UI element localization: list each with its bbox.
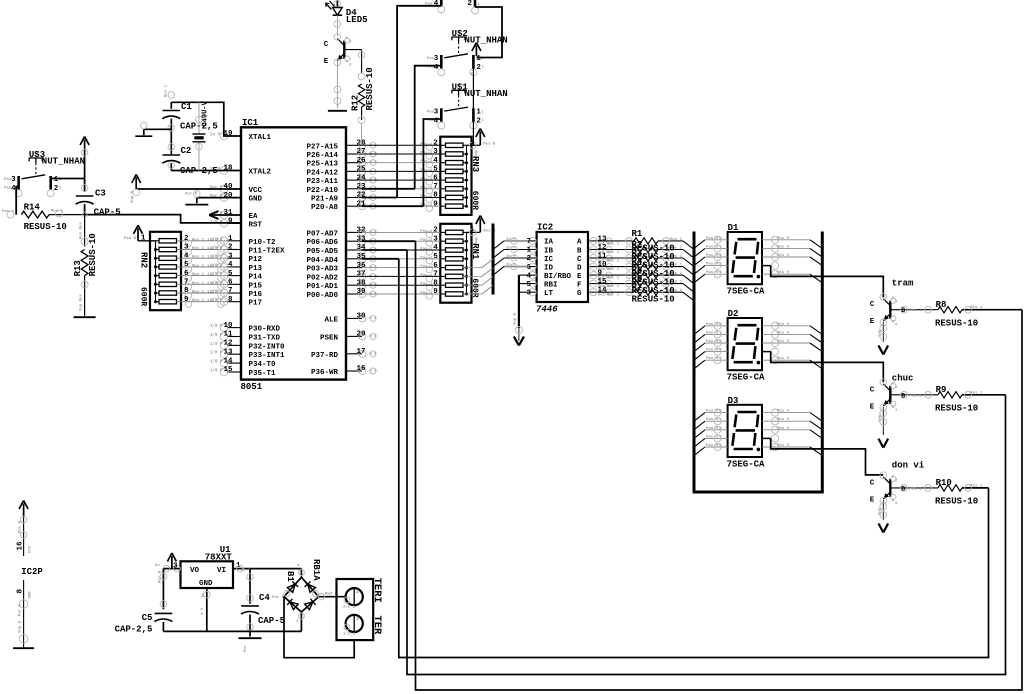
svg-text:Out 1: Out 1	[607, 260, 620, 264]
svg-text:Out 1: Out 1	[607, 294, 620, 298]
svg-text:Res 1: Res 1	[970, 484, 983, 488]
svg-text:5: 5	[526, 281, 531, 289]
svg-text:1: 1	[141, 235, 146, 243]
svg-text:G: G	[577, 290, 582, 298]
svg-text:3: 3	[434, 108, 439, 116]
svg-text:Out 1: Out 1	[607, 251, 620, 255]
svg-text:1/2 P: 1/2 P	[207, 237, 220, 242]
svg-text:RESUS-10: RESUS-10	[88, 233, 98, 276]
svg-text:E: E	[870, 496, 875, 504]
svg-text:,0 0: ,0 0	[367, 231, 377, 235]
svg-text:Res 0: Res 0	[777, 340, 790, 344]
svg-text:B: B	[577, 247, 582, 255]
svg-text:3: 3	[228, 252, 233, 260]
svg-text:RESUS-10: RESUS-10	[935, 404, 978, 414]
svg-text:0: 0	[349, 41, 351, 45]
svg-text:IC1: IC1	[242, 118, 259, 128]
svg-text:2: 2	[433, 140, 438, 148]
svg-text:Pas 0: Pas 0	[706, 418, 719, 422]
svg-text:P01-AD1: P01-AD1	[306, 283, 338, 291]
svg-text:5: 5	[433, 166, 438, 174]
svg-text:8: 8	[433, 279, 438, 287]
svg-text:31: 31	[223, 209, 233, 217]
svg-text:D: D	[577, 264, 582, 272]
svg-text:600R: 600R	[470, 191, 479, 210]
svg-text:C1: C1	[181, 102, 192, 112]
svg-text:30: 30	[356, 313, 366, 321]
svg-text:29: 29	[356, 331, 366, 339]
svg-text:Pas: Pas	[427, 57, 435, 61]
svg-text:11: 11	[223, 331, 233, 339]
svg-text:34: 34	[356, 244, 366, 252]
svg-text:78XXT: 78XXT	[205, 553, 233, 563]
svg-text:tram: tram	[892, 278, 914, 288]
svg-text:1/0 P: 1/0 P	[210, 360, 223, 365]
svg-text:Pas 0: Pas 0	[706, 357, 719, 361]
svg-text:Pas: Pas	[4, 178, 12, 182]
svg-text:CAP-2,5: CAP-2,5	[115, 625, 153, 635]
svg-text:8: 8	[433, 192, 438, 200]
svg-text:Res 1: Res 1	[51, 210, 64, 214]
svg-text:1/2 P: 1/2 P	[207, 281, 220, 286]
svg-text:Res 1: Res 1	[192, 264, 205, 268]
svg-text:2: 2	[201, 593, 204, 599]
svg-text:Res 1: Res 1	[192, 238, 205, 242]
svg-text:RBI: RBI	[544, 281, 558, 289]
svg-text:7446: 7446	[536, 305, 558, 315]
svg-text:GND: GND	[29, 591, 33, 599]
svg-text:Res 1: Res 1	[192, 282, 205, 286]
svg-text:Sup B Pwr B: Sup B Pwr B	[18, 604, 23, 633]
svg-text:1/2 1: 1/2 1	[343, 632, 356, 637]
svg-text:Res 0: Res 0	[777, 427, 790, 431]
svg-text:3: 3	[184, 244, 189, 252]
svg-text:1/0 P: 1/0 P	[210, 324, 223, 329]
svg-text:NUT_NHAN: NUT_NHAN	[465, 89, 508, 99]
svg-text:P16: P16	[249, 291, 263, 299]
svg-text:9: 9	[433, 288, 438, 296]
svg-text:P12: P12	[249, 256, 263, 264]
svg-text:Res B: Res B	[483, 142, 496, 146]
svg-text:P23-A11: P23-A11	[306, 178, 338, 186]
svg-text:3: 3	[433, 148, 438, 156]
svg-text:Pas 0: Pas 0	[706, 263, 719, 267]
svg-text:1/0 P: 1/0 P	[210, 351, 223, 356]
svg-text:C5: C5	[142, 613, 153, 623]
svg-text:Out 1: Out 1	[607, 242, 620, 246]
svg-text:26: 26	[356, 157, 366, 165]
svg-text:27: 27	[356, 148, 365, 156]
svg-text:R13: R13	[73, 260, 83, 276]
svg-text:6: 6	[526, 264, 531, 272]
svg-text:Pas 1: Pas 1	[909, 309, 922, 313]
svg-text:1/2 P: 1/2 P	[207, 263, 220, 268]
svg-text:Res 1: Res 1	[192, 291, 205, 295]
svg-text:C: C	[577, 256, 582, 264]
svg-text:P07-AD7: P07-AD7	[306, 230, 338, 238]
svg-text:P33-INT1: P33-INT1	[249, 352, 286, 360]
svg-text:6: 6	[228, 279, 233, 287]
svg-text:2/2 1: 2/2 1	[343, 605, 356, 610]
svg-text:D2: D2	[728, 309, 739, 319]
svg-text:Res 1: Res 1	[670, 238, 683, 242]
svg-text:R12: R12	[351, 95, 361, 111]
svg-text:Res 0: Res 0	[777, 331, 790, 335]
svg-text:Sup: Sup	[879, 507, 883, 515]
svg-text:1/2 P: 1/2 P	[207, 290, 220, 295]
svg-text:36: 36	[356, 262, 366, 270]
svg-text:Pas 0: Pas 0	[706, 427, 719, 431]
svg-text:8: 8	[228, 296, 233, 304]
svg-text:Pas 0: Pas 0	[706, 331, 719, 335]
svg-text:F: F	[577, 281, 582, 289]
svg-text:Res 1: Res 1	[970, 391, 983, 395]
svg-text:Pwr: Pwr	[243, 644, 248, 652]
svg-text:P05-AD5: P05-AD5	[306, 248, 338, 256]
svg-text:RESUS-10: RESUS-10	[632, 295, 675, 305]
svg-text:P31-TXD: P31-TXD	[249, 335, 281, 343]
svg-text:P35-T1: P35-T1	[249, 370, 277, 378]
svg-text:PSEN: PSEN	[320, 334, 338, 342]
svg-text:33: 33	[356, 235, 366, 243]
svg-text:6: 6	[433, 174, 438, 182]
svg-text:,0 0: ,0 0	[367, 352, 377, 356]
svg-text:R1: R1	[632, 229, 643, 239]
svg-text:Res 1: Res 1	[192, 256, 205, 260]
svg-text:Out 1: Out 1	[607, 268, 620, 272]
svg-text:16: 16	[356, 365, 366, 373]
svg-text:24: 24	[356, 174, 366, 182]
svg-text:25: 25	[356, 166, 366, 174]
svg-text:8: 8	[17, 589, 25, 594]
svg-text:1: 1	[228, 235, 233, 243]
svg-text:Ou: Ou	[155, 564, 160, 568]
svg-text:1: 1	[526, 247, 531, 255]
svg-text:C: C	[870, 301, 875, 309]
svg-text:P24-A12: P24-A12	[306, 169, 338, 177]
svg-text:Res 0: Res 0	[777, 444, 790, 448]
svg-text:4: 4	[184, 252, 189, 260]
svg-text:600R: 600R	[470, 278, 479, 297]
svg-text:7: 7	[184, 279, 189, 287]
svg-text:P17: P17	[249, 300, 263, 308]
svg-text:Pas 0: Pas 0	[706, 410, 719, 414]
svg-text:RN1: RN1	[470, 243, 480, 260]
svg-text:C2: C2	[181, 146, 192, 156]
svg-text:7: 7	[228, 287, 233, 295]
svg-text:C: C	[324, 41, 329, 49]
svg-text:Pas 0: Pas 0	[706, 237, 719, 241]
svg-text:15: 15	[223, 366, 233, 374]
svg-text:ALE: ALE	[324, 316, 338, 324]
svg-text:IC: IC	[544, 256, 554, 264]
svg-text:1: 1	[470, 139, 475, 147]
svg-text:P13: P13	[249, 265, 263, 273]
svg-text:1/2 P: 1/2 P	[207, 246, 220, 251]
svg-text:P32-INT0: P32-INT0	[249, 343, 286, 351]
svg-text:C3: C3	[95, 189, 106, 199]
svg-text:7: 7	[433, 271, 438, 279]
svg-text:E: E	[324, 58, 329, 66]
svg-text:,0 0: ,0 0	[367, 266, 377, 270]
svg-text:Res Res: Res Res	[80, 222, 84, 239]
svg-text:Sup B: Sup B	[514, 312, 518, 325]
svg-text:Res B: Res B	[19, 520, 23, 533]
svg-text:D3: D3	[728, 396, 739, 406]
svg-text:38: 38	[356, 279, 366, 287]
svg-text:0: 0	[895, 502, 897, 506]
svg-text:EA: EA	[249, 213, 259, 221]
svg-text:IC2P: IC2P	[21, 567, 43, 577]
svg-text:1/0 P: 1/0 P	[210, 369, 223, 374]
svg-text:P21-A9: P21-A9	[311, 196, 339, 204]
svg-text:RST: RST	[249, 221, 263, 229]
svg-text:RESUS-10: RESUS-10	[935, 318, 978, 328]
svg-text:1 0: 1 0	[201, 607, 205, 615]
svg-text:,0 0: ,0 0	[367, 293, 377, 297]
svg-text:0: 0	[895, 386, 897, 390]
svg-text:Pas 0: Pas 0	[706, 271, 719, 275]
svg-text:Res 1: Res 1	[970, 306, 983, 310]
svg-text:IB: IB	[544, 247, 554, 255]
svg-text:7SEG-CA: 7SEG-CA	[727, 459, 765, 469]
svg-text:,0 0: ,0 0	[367, 370, 377, 374]
svg-text:Out 1: Out 1	[607, 285, 620, 289]
svg-text:RB1A: RB1A	[311, 559, 321, 581]
svg-text:P00-AD0: P00-AD0	[306, 292, 338, 300]
svg-text:LT: LT	[544, 290, 554, 298]
svg-text:Pas: Pas	[4, 187, 12, 191]
svg-text:Res 0: Res 0	[777, 237, 790, 241]
svg-text:0: 0	[895, 409, 897, 413]
svg-text:0: 0	[895, 301, 897, 305]
svg-text:3: 3	[173, 563, 178, 571]
svg-text:BI/RBO: BI/RBO	[544, 273, 572, 281]
svg-text:Pwr B: Pwr B	[185, 192, 198, 197]
svg-text:RESUS-10: RESUS-10	[935, 497, 978, 507]
svg-text:R8: R8	[936, 300, 947, 310]
svg-text:Sup B: Sup B	[131, 190, 135, 203]
svg-text:1/2 P: 1/2 P	[207, 272, 220, 277]
svg-text:18: 18	[223, 165, 233, 173]
svg-text:Pas 0: Pas 0	[706, 349, 719, 353]
svg-text:B: B	[901, 485, 905, 492]
svg-text:39: 39	[356, 288, 366, 296]
svg-text:Sup: Sup	[879, 414, 883, 422]
svg-text:B1: B1	[285, 571, 295, 582]
svg-text:P25-A13: P25-A13	[306, 161, 338, 169]
svg-text:0: 0	[349, 64, 351, 68]
svg-text:XTAL2: XTAL2	[249, 169, 272, 177]
svg-text:UCC: UCC	[29, 545, 33, 553]
svg-text:P04-AD4: P04-AD4	[306, 257, 338, 265]
svg-text:Res 0: Res 0	[777, 271, 790, 275]
svg-text:don vi: don vi	[892, 460, 925, 470]
svg-text:Pas B: Pas B	[124, 237, 137, 241]
svg-text:600R: 600R	[139, 287, 148, 306]
svg-text:1: 1	[356, 616, 359, 622]
svg-text:RESUS-10: RESUS-10	[365, 67, 375, 110]
svg-text:P37-RD: P37-RD	[311, 352, 339, 360]
svg-text:6: 6	[433, 262, 438, 270]
svg-text:P27-A15: P27-A15	[306, 143, 338, 151]
svg-text:GND: GND	[199, 580, 213, 588]
svg-text:2: 2	[228, 244, 233, 252]
svg-text:10: 10	[223, 322, 233, 330]
svg-text:4: 4	[433, 157, 438, 165]
svg-text:22: 22	[356, 192, 366, 200]
svg-text:9: 9	[184, 296, 189, 304]
svg-text:9: 9	[228, 218, 233, 226]
svg-text:Res 1: Res 1	[192, 273, 205, 277]
svg-text:1/2 P: 1/2 P	[207, 255, 220, 260]
svg-text:P06-AD6: P06-AD6	[306, 239, 338, 247]
svg-text:0: 0	[895, 479, 897, 483]
svg-text:P22-A10: P22-A10	[306, 187, 338, 195]
svg-text:1/2 P: 1/2 P	[207, 298, 220, 303]
svg-text:Out 1: Out 1	[607, 277, 620, 281]
svg-text:37: 37	[356, 271, 365, 279]
svg-text:NUT_NHAN: NUT_NHAN	[42, 157, 85, 167]
svg-text:Res 0: Res 0	[777, 418, 790, 422]
svg-text:Sup: Sup	[879, 329, 883, 337]
svg-text:B: B	[901, 392, 905, 399]
svg-text:GND: GND	[249, 196, 263, 204]
svg-text:Res 0: Res 0	[777, 357, 790, 361]
svg-text:P02-AD2: P02-AD2	[306, 274, 338, 282]
svg-text:,0 0: ,0 0	[367, 335, 377, 339]
svg-text:21: 21	[356, 200, 366, 208]
svg-text:4: 4	[433, 244, 438, 252]
svg-text:4: 4	[228, 261, 233, 269]
svg-text:Pas 1: Pas 1	[909, 487, 922, 491]
svg-text:R10: R10	[936, 478, 952, 488]
svg-text:Pas 0: Pas 0	[706, 245, 719, 249]
svg-text:P11-T2EX: P11-T2EX	[249, 248, 286, 256]
svg-text:XTAL1: XTAL1	[249, 134, 272, 142]
svg-text:Pas: Pas	[427, 110, 435, 114]
svg-text:8: 8	[184, 287, 189, 295]
svg-text:Res 1: Res 1	[192, 247, 205, 251]
svg-text:14: 14	[223, 357, 233, 365]
svg-text:40: 40	[223, 183, 233, 191]
svg-text:VI: VI	[217, 567, 226, 575]
svg-text:32: 32	[356, 227, 366, 235]
svg-text:D1: D1	[728, 223, 739, 233]
svg-text:P30-RXD: P30-RXD	[249, 326, 281, 334]
svg-text:4: 4	[526, 272, 531, 280]
svg-text:Pas 1: Pas 1	[909, 394, 922, 398]
svg-text:7SEG-CA: 7SEG-CA	[727, 373, 765, 383]
svg-text:2: 2	[433, 227, 438, 235]
svg-text:CAP-5: CAP-5	[258, 616, 285, 626]
svg-text:P36-WR: P36-WR	[311, 369, 339, 377]
svg-text:ID: ID	[544, 264, 554, 272]
svg-text:In P: In P	[210, 134, 221, 138]
svg-text:RESUS-10: RESUS-10	[24, 222, 67, 232]
svg-text:IC2: IC2	[537, 223, 553, 233]
svg-text:1/0 P: 1/0 P	[210, 333, 223, 338]
svg-text:9: 9	[433, 200, 438, 208]
svg-text:R9: R9	[936, 385, 947, 395]
svg-text:3: 3	[11, 176, 16, 184]
svg-text:7: 7	[433, 183, 438, 191]
svg-text:7SEG-CA: 7SEG-CA	[727, 287, 765, 297]
svg-text:1: 1	[470, 226, 475, 234]
svg-text:0: 0	[895, 324, 897, 328]
svg-text:35: 35	[356, 253, 366, 261]
svg-text:P34-T0: P34-T0	[249, 361, 277, 369]
svg-text:E: E	[870, 318, 875, 326]
svg-text:P10-T2: P10-T2	[249, 239, 277, 247]
svg-text:,0 0: ,0 0	[367, 317, 377, 321]
svg-text:Res 1: Res 1	[192, 299, 205, 303]
svg-text:RN2: RN2	[139, 252, 149, 268]
svg-text:E: E	[577, 273, 582, 281]
svg-text:6: 6	[184, 270, 189, 278]
svg-text:A: A	[577, 239, 582, 247]
svg-text:3: 3	[433, 235, 438, 243]
svg-text:C4: C4	[259, 593, 270, 603]
svg-text:E: E	[870, 403, 875, 411]
svg-text:5: 5	[228, 270, 233, 278]
svg-text:13: 13	[223, 348, 233, 356]
svg-text:Pas 0: Pas 0	[706, 323, 719, 327]
svg-text:2: 2	[526, 255, 531, 263]
svg-text:IA: IA	[544, 239, 554, 247]
svg-text:8051: 8051	[241, 382, 263, 392]
svg-text:Far B: Far B	[272, 595, 285, 600]
svg-text:Sup Res: Sup Res	[80, 294, 84, 311]
svg-text:C: C	[870, 386, 875, 394]
svg-text:LED5: LED5	[346, 15, 368, 25]
svg-text:Res 0: Res 0	[777, 245, 790, 249]
svg-text:Pas 1: Pas 1	[2, 210, 15, 214]
svg-text:,0 0: ,0 0	[367, 161, 377, 165]
svg-text:Pas 0: Pas 0	[706, 435, 719, 439]
svg-text:VO: VO	[190, 567, 200, 575]
svg-text:19: 19	[223, 130, 233, 138]
svg-text:20: 20	[223, 192, 233, 200]
svg-text:Pas 0: Pas 0	[706, 340, 719, 344]
svg-text:Res 0: Res 0	[777, 254, 790, 258]
svg-text:Res 0: Res 0	[777, 410, 790, 414]
svg-text:2: 2	[184, 235, 189, 243]
svg-text:5: 5	[433, 253, 438, 261]
svg-text:Res 0: Res 0	[777, 323, 790, 327]
svg-text:23: 23	[356, 183, 366, 191]
svg-text:B: B	[901, 307, 905, 314]
svg-text:R14: R14	[24, 203, 41, 213]
svg-text:P03-AD3: P03-AD3	[306, 266, 338, 274]
svg-text:3: 3	[434, 55, 439, 63]
svg-text:7: 7	[526, 238, 531, 246]
svg-text:CAP-5: CAP-5	[94, 207, 121, 217]
svg-text:12: 12	[223, 340, 233, 348]
svg-text:P20-A8: P20-A8	[311, 204, 339, 212]
svg-text:16: 16	[17, 541, 25, 551]
svg-text:2: 2	[356, 589, 359, 595]
svg-text:4: 4	[434, 0, 439, 8]
svg-text:chuc: chuc	[892, 374, 914, 384]
svg-text:2: 2	[467, 0, 472, 8]
svg-text:C49U-V: C49U-V	[202, 100, 210, 126]
svg-text:P26-A14: P26-A14	[306, 152, 338, 160]
svg-text:RN3: RN3	[470, 156, 480, 172]
svg-text:Res 1: Res 1	[165, 84, 169, 97]
svg-text:P14: P14	[249, 274, 263, 282]
svg-text:17: 17	[356, 348, 365, 356]
